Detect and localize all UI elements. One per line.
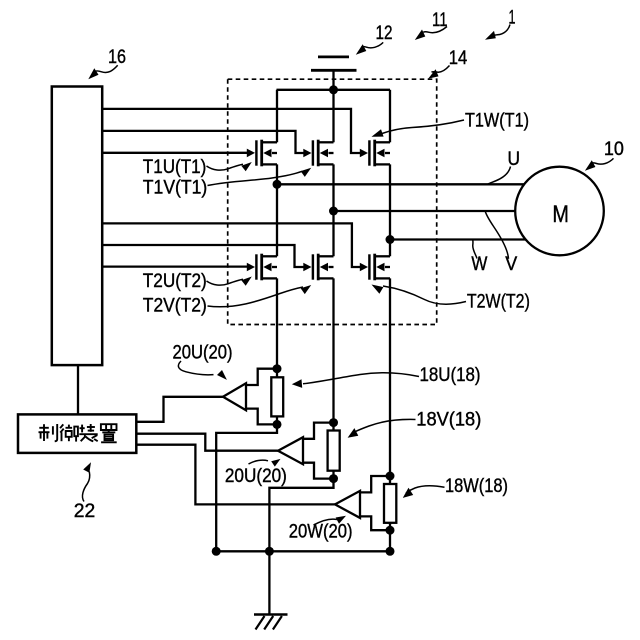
label T1W(T1)	[465, 110, 529, 131]
svg-text:M: M	[552, 201, 569, 228]
svg-text:22: 22	[74, 501, 96, 522]
op-amp 20U	[223, 383, 246, 410]
wire W column source to T2W	[389, 164, 391, 256]
svg-text:18W(18): 18W(18)	[445, 476, 508, 497]
wire control to amp3	[136, 445, 335, 505]
svg-text:16: 16	[108, 47, 126, 68]
dashed box 14	[228, 79, 437, 324]
wire T2U gate line	[102, 265, 247, 267]
label T1V(T1)	[143, 177, 208, 198]
label T2V(T2)	[143, 295, 207, 316]
kanji 御	[60, 424, 78, 441]
shunt resistor 18U	[276, 278, 278, 377]
wire T1V gate line	[102, 131, 304, 153]
wire box16 to control box	[77, 365, 79, 414]
label 20U(20) upper	[173, 343, 233, 364]
control box 制御装置	[18, 414, 136, 453]
wire U column drain	[276, 90, 278, 143]
svg-text:20U(20): 20U(20)	[225, 466, 287, 487]
node W junction	[386, 235, 395, 244]
driver box 16	[52, 87, 102, 366]
label V	[505, 254, 517, 275]
wire W column drain	[389, 90, 391, 143]
motor M	[515, 167, 604, 256]
label 22	[74, 501, 96, 522]
shunt resistor 18V	[332, 278, 334, 430]
wire amp1 bracket bottom	[246, 409, 277, 425]
wire T1U gate line	[102, 152, 247, 154]
wire phase U	[277, 183, 524, 185]
svg-text:W: W	[471, 254, 487, 275]
svg-text:T2V(T2): T2V(T2)	[143, 295, 207, 316]
wire power stem	[332, 70, 334, 90]
label 20U(20) lower	[225, 466, 287, 487]
node 18V top junction	[329, 418, 338, 427]
transistor T1W	[369, 140, 390, 167]
transistor T2U	[256, 254, 277, 281]
node rail right	[386, 547, 395, 556]
shunt resistor 18W	[389, 278, 391, 484]
svg-text:18U(18): 18U(18)	[420, 365, 481, 386]
label 18U(18)	[420, 365, 481, 386]
wire 18V to ground rail	[269, 479, 333, 552]
label 16	[108, 47, 126, 68]
wire amp1 bracket top	[246, 369, 277, 385]
transistor T1U	[256, 140, 277, 167]
label T2U(T2)	[143, 271, 207, 292]
svg-text:10: 10	[604, 139, 624, 160]
node 18W top junction	[386, 472, 395, 481]
wire amp2 bracket top	[303, 423, 334, 439]
svg-text:12: 12	[376, 23, 393, 44]
control box text 制御装置 (hand-drawn kanji strokes)	[39, 424, 117, 442]
transistor T2W	[369, 254, 390, 281]
svg-text:T1U(T1): T1U(T1)	[143, 157, 207, 178]
node 18W bottom junction	[386, 526, 395, 535]
svg-text:14: 14	[449, 48, 468, 69]
label 10	[604, 139, 624, 160]
svg-text:20U(20): 20U(20)	[173, 343, 233, 364]
svg-text:T2W(T2): T2W(T2)	[467, 292, 530, 313]
transistor T2V	[313, 254, 334, 281]
node 18V bottom junction	[329, 474, 338, 483]
label 11	[432, 10, 448, 31]
label 18V(18)	[416, 410, 481, 431]
svg-text:18V(18): 18V(18)	[416, 410, 481, 431]
wire T2W gate line	[102, 223, 360, 267]
wire amp2 bracket bottom	[303, 463, 334, 479]
power supply symbol 12	[318, 56, 349, 59]
wire T2V gate line	[102, 245, 304, 267]
label U	[508, 149, 521, 170]
label W	[471, 254, 487, 275]
op-amp 20V	[278, 437, 303, 464]
svg-text:U: U	[508, 149, 521, 170]
wire amp3 bracket bottom	[360, 516, 390, 530]
node rail mid	[265, 547, 274, 556]
node 18U top junction	[273, 364, 282, 373]
wire amp3 bracket top	[360, 476, 390, 492]
wire 18U to ground rail	[216, 424, 277, 551]
wire T1W gate line	[102, 109, 360, 153]
wire bottom rail	[216, 550, 390, 552]
wire V column drain	[332, 90, 334, 143]
transistor T1V	[313, 140, 334, 167]
label 1	[509, 8, 516, 29]
label 14	[449, 48, 468, 69]
wire top rail	[277, 89, 391, 91]
svg-text:T1W(T1): T1W(T1)	[465, 110, 529, 131]
label 18W(18)	[445, 476, 508, 497]
label 12	[376, 23, 393, 44]
wire U column source to T2U	[276, 164, 278, 256]
label T2W(T2)	[467, 292, 530, 313]
label T1U(T1)	[143, 157, 207, 178]
svg-text:T1V(T1): T1V(T1)	[143, 177, 208, 198]
wire phase V	[334, 210, 516, 212]
label 20W(20)	[289, 522, 353, 543]
node rail left	[212, 547, 221, 556]
kanji 装	[79, 424, 97, 441]
wire V column source to T2V	[332, 164, 334, 256]
svg-text:20W(20): 20W(20)	[289, 522, 353, 543]
node power junction	[329, 85, 338, 94]
node V junction	[329, 207, 338, 216]
wire control to amp1	[136, 397, 223, 422]
wire phase W	[390, 238, 526, 240]
ground	[268, 551, 270, 614]
node U junction	[273, 180, 282, 189]
svg-text:V: V	[505, 254, 517, 275]
kanji 制	[39, 424, 58, 441]
wire control to amp2	[136, 434, 278, 451]
node 18U bottom junction	[273, 420, 282, 429]
op-amp 20W	[335, 491, 360, 518]
svg-text:T2U(T2): T2U(T2)	[143, 271, 207, 292]
kanji 置	[101, 424, 117, 442]
